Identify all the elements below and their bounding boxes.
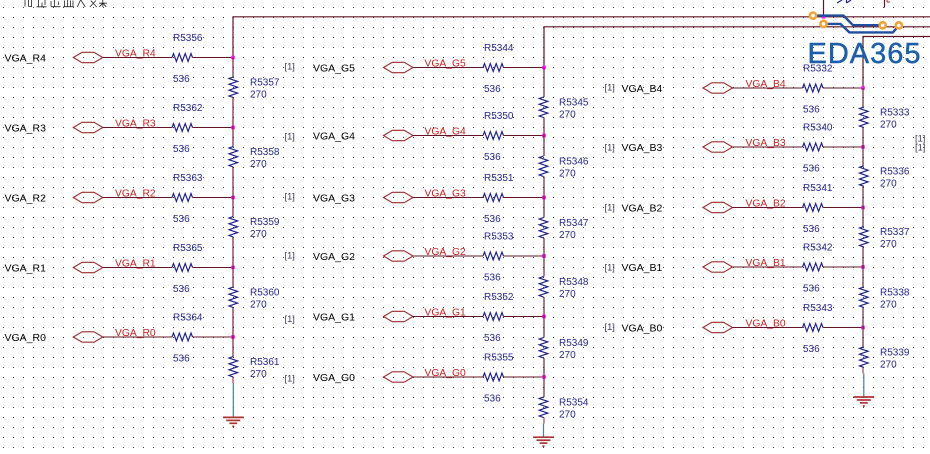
wire bus segment to resistor R5336 <box>862 147 864 166</box>
wire resistor R5357 to next row <box>232 98 234 128</box>
svg-text:270: 270 <box>880 300 897 311</box>
wire power stub (teal) <box>232 383 234 417</box>
svg-text:R5342: R5342 <box>803 243 833 254</box>
cut-off resistor marks top edge <box>837 0 851 3</box>
wire R5350 to bus <box>504 135 545 137</box>
resistor R5362 <box>172 124 193 132</box>
svg-text:[1]: [1] <box>605 322 615 332</box>
svg-text:VGA_B2: VGA_B2 <box>622 202 663 214</box>
port VGA_G4 <box>384 130 414 140</box>
resistor R5352 <box>483 313 504 321</box>
wire bus segment to resistor R5345 <box>543 68 545 98</box>
wire VGA_G4 port to resistor R5350 <box>413 135 483 137</box>
svg-text:[1]: [1] <box>605 142 615 152</box>
wire R5356 to bus <box>193 57 234 59</box>
svg-text:R5353: R5353 <box>484 232 514 243</box>
svg-text:536: 536 <box>484 333 501 344</box>
wire R5351 to bus <box>504 197 545 199</box>
svg-text:270: 270 <box>559 410 576 421</box>
svg-text:R5340: R5340 <box>803 123 833 134</box>
resistor R5349 (vertical) <box>539 338 548 359</box>
wire stub from cut-off circuit above <box>823 0 825 17</box>
svg-text:[1]: [1] <box>285 62 295 72</box>
wire VGA_R3 port to resistor R5362 <box>103 127 172 129</box>
port VGA_R2 <box>73 192 103 202</box>
junction VGA_R4 on bus <box>231 56 235 60</box>
resistor R5343 <box>803 324 824 332</box>
resistor R5364 <box>172 333 193 341</box>
svg-text:270: 270 <box>559 110 576 121</box>
resistor R5359 (vertical) <box>229 217 238 238</box>
junction VGA_B2 on bus <box>861 206 865 210</box>
svg-text:VGA_B1: VGA_B1 <box>622 262 663 274</box>
port VGA_B0 <box>703 322 733 332</box>
wire bus segment to resistor R5338 <box>862 267 864 287</box>
svg-text:R5351: R5351 <box>484 173 514 184</box>
svg-text:270: 270 <box>559 289 576 300</box>
svg-text:[1]: [1] <box>285 251 295 261</box>
wire bus segment to resistor R5348 <box>543 256 545 277</box>
junction VGA_G3 on bus <box>542 196 546 200</box>
wire resistor R5345 to next row <box>543 118 545 136</box>
port VGA_G0 <box>384 372 414 382</box>
svg-text:[1]: [1] <box>285 374 295 384</box>
wire bus segment to resistor R5359 <box>232 198 234 217</box>
svg-text:536: 536 <box>803 105 820 116</box>
resistor R5360 (vertical) <box>229 287 238 308</box>
junction VGA_R0 on bus <box>231 335 235 339</box>
svg-text:[1]: [1] <box>285 314 295 324</box>
junction VGA_G4 on bus <box>542 134 546 138</box>
svg-text:R5333: R5333 <box>880 108 910 119</box>
svg-text:R5359: R5359 <box>250 217 280 228</box>
svg-text:R5346: R5346 <box>559 157 589 168</box>
resistor R5346 (vertical) <box>539 156 548 177</box>
svg-text:270: 270 <box>559 350 576 361</box>
wire VGA_R0 port to resistor R5364 <box>103 336 172 338</box>
resistor R5355 <box>483 373 504 381</box>
wire bus segment to resistor R5347 <box>543 198 545 218</box>
svg-text:R5360: R5360 <box>250 288 280 299</box>
svg-text:EDA365: EDA365 <box>808 38 922 70</box>
svg-text:R5356: R5356 <box>173 33 203 44</box>
svg-text:R5345: R5345 <box>559 98 589 109</box>
svg-text:536: 536 <box>173 144 190 155</box>
wire last resistor to ground stub <box>543 418 545 424</box>
svg-text:[1]: [1] <box>605 82 615 92</box>
resistor R5363 <box>172 194 193 202</box>
resistor R5354 (vertical) <box>539 397 548 418</box>
wire R5340 to bus <box>823 146 863 148</box>
svg-text:R5361: R5361 <box>250 357 280 368</box>
svg-text:536: 536 <box>173 74 190 85</box>
junction VGA_R1 on bus <box>231 266 235 270</box>
resistor R5337 (vertical) <box>860 227 869 248</box>
svg-text:536: 536 <box>803 164 820 175</box>
wire R5352 to bus <box>504 316 545 318</box>
wire resistor R5348 to next row <box>543 297 545 317</box>
svg-text:270: 270 <box>880 239 897 250</box>
wire R5344 to bus <box>504 67 545 69</box>
wire VGA_G0 port to resistor R5355 <box>413 376 483 378</box>
svg-text:VGA_G2: VGA_G2 <box>313 251 355 263</box>
resistor R5357 (vertical) <box>229 77 238 98</box>
junction VGA_G1 on bus <box>542 315 546 319</box>
logo EDA365 traces <box>813 16 899 33</box>
wire VGA_B4 port to resistor R5332 <box>733 87 803 89</box>
svg-text:R5343: R5343 <box>803 303 833 314</box>
resistor R5348 (vertical) <box>539 277 548 298</box>
wire VGA_R4 port to resistor R5356 <box>103 57 172 59</box>
resistor R5344 <box>483 64 504 72</box>
svg-text:270: 270 <box>250 369 267 380</box>
svg-text:270: 270 <box>250 229 267 240</box>
svg-text:R5338: R5338 <box>880 288 910 299</box>
svg-text:R5347: R5347 <box>559 218 589 229</box>
svg-text:VGA_B0: VGA_B0 <box>622 322 663 334</box>
resistor R5347 (vertical) <box>539 218 548 239</box>
svg-text:R5349: R5349 <box>559 338 589 349</box>
svg-text:R5348: R5348 <box>559 277 589 288</box>
wire R5332 to bus <box>823 87 863 89</box>
svg-text:VGA_R3: VGA_R3 <box>5 122 47 134</box>
resistor R5332 <box>803 84 824 92</box>
svg-text:R5350: R5350 <box>484 111 514 122</box>
port VGA_G5 <box>384 62 414 72</box>
wire VGA_G5 port to resistor R5344 <box>413 67 483 69</box>
svg-text:270: 270 <box>880 178 897 189</box>
wire bus segment to resistor R5346 <box>543 136 545 157</box>
svg-text:536: 536 <box>803 284 820 295</box>
wire R5341 to bus <box>823 207 863 209</box>
resistor R5351 <box>483 194 504 202</box>
wire net1 top horizontal (R column bus to right edge) <box>233 17 930 58</box>
svg-text:VGA_B4: VGA_B4 <box>622 83 663 95</box>
resistor R5338 (vertical) <box>860 287 869 308</box>
resistor R5342 <box>803 263 824 271</box>
wire net3 top horizontal (B column bus to right edge) <box>863 37 930 89</box>
svg-text:R5341: R5341 <box>803 183 833 194</box>
svg-text:VGA_G0: VGA_G0 <box>313 372 355 384</box>
resistor R5340 <box>803 143 824 151</box>
wire resistor R5333 to next row <box>862 128 864 148</box>
svg-text:536: 536 <box>484 273 501 284</box>
svg-text:VGA_R4: VGA_R4 <box>5 52 47 64</box>
svg-text:VGA_R0: VGA_R0 <box>5 332 47 344</box>
resistor R5350 <box>483 132 504 140</box>
port VGA_G2 <box>384 251 414 261</box>
svg-text:VGA_G5: VGA_G5 <box>313 62 355 74</box>
cut-off component mark top edge <box>884 0 886 8</box>
wire bus segment to resistor R5337 <box>862 208 864 227</box>
junction VGA_G2 on bus <box>542 254 546 258</box>
svg-text:536: 536 <box>484 214 501 225</box>
ground symbol column R <box>223 417 244 426</box>
svg-text:[1]: [1] <box>285 132 295 142</box>
svg-text:R5363: R5363 <box>173 173 203 184</box>
wire resistor R5360 to next row <box>232 308 234 338</box>
wire resistor R5336 to next row <box>862 186 864 207</box>
port VGA_B1 <box>703 262 733 272</box>
port VGA_G1 <box>384 311 414 321</box>
junction VGA_R2 on bus <box>231 196 235 200</box>
svg-text:[1]: [1] <box>915 143 925 153</box>
junction on net1 at stub <box>822 15 826 19</box>
svg-text:R5344: R5344 <box>484 43 514 54</box>
svg-text:270: 270 <box>250 300 267 311</box>
wire R5364 to bus <box>193 336 234 338</box>
wire power stub (teal) <box>863 373 865 397</box>
wire VGA_B1 port to resistor R5342 <box>733 266 803 268</box>
wire bus segment to resistor R5354 <box>543 377 545 397</box>
wire bus segment to resistor R5333 <box>862 88 864 107</box>
ground symbol column G <box>533 437 554 446</box>
svg-text:R5352: R5352 <box>484 292 514 303</box>
wire bus segment to resistor R5361 <box>232 337 234 357</box>
svg-text:270: 270 <box>559 230 576 241</box>
wire last resistor to ground stub <box>232 377 234 383</box>
logo pads <box>810 13 902 29</box>
wire VGA_G2 port to resistor R5353 <box>413 255 483 257</box>
svg-text:R5358: R5358 <box>250 147 280 158</box>
junction VGA_G0 on bus <box>542 375 546 379</box>
svg-text:270: 270 <box>559 169 576 180</box>
svg-text:536: 536 <box>173 354 190 365</box>
wire R5365 to bus <box>193 267 234 269</box>
junction VGA_B4 on bus <box>861 86 865 90</box>
svg-text:VGA_G4: VGA_G4 <box>313 130 355 142</box>
wire R5353 to bus <box>504 255 545 257</box>
resistor R5333 (vertical) <box>860 107 869 128</box>
svg-text:VGA_G3: VGA_G3 <box>313 192 355 204</box>
svg-text:270: 270 <box>250 159 267 170</box>
svg-text:[1]: [1] <box>605 262 615 272</box>
wire VGA_G1 port to resistor R5352 <box>413 316 483 318</box>
svg-text:[1]: [1] <box>285 192 295 202</box>
svg-text:VGA_B3: VGA_B3 <box>622 142 663 154</box>
port VGA_B3 <box>703 142 733 152</box>
resistor R5358 (vertical) <box>229 147 238 168</box>
svg-text:536: 536 <box>803 224 820 235</box>
wire resistor R5358 to next row <box>232 167 234 198</box>
svg-text:R5339: R5339 <box>880 347 910 358</box>
wire power stub (teal) <box>543 424 545 438</box>
ground symbol column B <box>854 397 875 406</box>
resistor R5341 <box>803 204 824 212</box>
resistor R5336 (vertical) <box>860 166 869 187</box>
svg-text:R5354: R5354 <box>559 398 589 409</box>
port VGA_B4 <box>703 83 733 93</box>
junction VGA_B0 on bus <box>861 326 865 330</box>
svg-text:VGA_G1: VGA_G1 <box>313 311 355 323</box>
port VGA_R4 <box>73 52 103 62</box>
wire resistor R5347 to next row <box>543 238 545 256</box>
junction VGA_G5 on bus <box>542 66 546 70</box>
svg-text:R5336: R5336 <box>880 166 910 177</box>
svg-text:270: 270 <box>250 90 267 101</box>
port VGA_R3 <box>73 122 103 132</box>
svg-text:R5365: R5365 <box>173 243 203 254</box>
resistor R5365 <box>172 264 193 272</box>
wire VGA_B2 port to resistor R5341 <box>733 207 803 209</box>
svg-text:536: 536 <box>484 394 501 405</box>
resistor R5345 (vertical) <box>539 97 548 118</box>
wire resistor R5338 to next row <box>862 308 864 328</box>
resistor R5353 <box>483 252 504 260</box>
wire VGA_R2 port to resistor R5363 <box>103 197 172 199</box>
junction VGA_B3 on bus <box>861 145 865 149</box>
wire R5342 to bus <box>823 266 863 268</box>
port VGA_B2 <box>703 202 733 212</box>
svg-text:R5357: R5357 <box>250 78 280 89</box>
svg-text:270: 270 <box>880 120 897 131</box>
svg-text:536: 536 <box>173 214 190 225</box>
wire bus segment to resistor R5339 <box>862 328 864 347</box>
resistor R5361 (vertical) <box>229 357 238 378</box>
wire R5363 to bus <box>193 197 234 199</box>
wire net2 top horizontal (G column bus to right edge) <box>544 27 930 68</box>
wire resistor R5359 to next row <box>232 237 234 268</box>
wire resistor R5349 to next row <box>543 358 545 377</box>
wire bus segment to resistor R5358 <box>232 128 234 147</box>
wire VGA_R1 port to resistor R5365 <box>103 267 172 269</box>
wire VGA_G3 port to resistor R5351 <box>413 197 483 199</box>
wire resistor R5346 to next row <box>543 177 545 198</box>
port VGA_R1 <box>73 262 103 272</box>
svg-text:536: 536 <box>173 284 190 295</box>
wire VGA_B3 port to resistor R5340 <box>733 146 803 148</box>
wire bus segment to resistor R5349 <box>543 317 545 338</box>
wire resistor R5337 to next row <box>862 247 864 267</box>
wire bus segment to resistor R5357 <box>232 58 234 78</box>
wire VGA_B0 port to resistor R5343 <box>733 327 803 329</box>
svg-text:VGA_R2: VGA_R2 <box>5 192 47 204</box>
junction VGA_B1 on bus <box>861 265 865 269</box>
resistor R5356 <box>172 54 193 62</box>
port VGA_R0 <box>73 332 103 342</box>
svg-text:536: 536 <box>803 344 820 355</box>
svg-text:VGA_R1: VGA_R1 <box>5 262 47 274</box>
wire R5355 to bus <box>504 376 545 378</box>
svg-text:R5337: R5337 <box>880 227 910 238</box>
port VGA_G3 <box>384 192 414 202</box>
svg-text:536: 536 <box>484 84 501 95</box>
svg-text:R5364: R5364 <box>173 313 203 324</box>
junction VGA_R3 on bus <box>231 126 235 130</box>
wire R5343 to bus <box>823 327 863 329</box>
svg-text:[1]: [1] <box>605 202 615 212</box>
wire bus segment to resistor R5360 <box>232 268 234 288</box>
wire R5362 to bus <box>193 127 234 129</box>
wire last resistor to ground stub <box>862 367 864 373</box>
text 请在此输入文本 (cut off at top) <box>25 0 107 7</box>
svg-text:R5355: R5355 <box>484 353 514 364</box>
svg-text:270: 270 <box>880 359 897 370</box>
svg-text:R5362: R5362 <box>173 103 203 114</box>
svg-text:536: 536 <box>484 152 501 163</box>
resistor R5339 (vertical) <box>860 347 869 368</box>
